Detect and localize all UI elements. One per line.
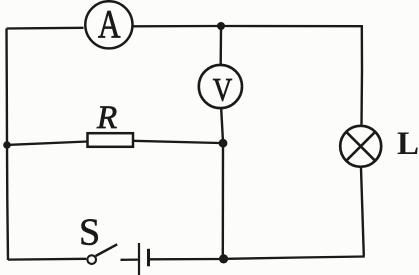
wire top node down to voltmeter	[219, 29, 222, 64]
wire left side (bottom-left corner up to left junction)	[7, 145, 8, 260]
ammeter A1	[85, 1, 132, 48]
wire right side lower (lamp to bottom-right corner)	[361, 168, 364, 256]
lamp L1 circle	[340, 126, 381, 167]
resistor R1 box	[88, 133, 134, 147]
bottom junction dot B	[219, 254, 228, 263]
svg-text:A: A	[98, 1, 121, 46]
wire left junction to resistor	[10, 142, 88, 145]
switch S1 lever	[96, 244, 118, 256]
svg-text:S: S	[79, 211, 100, 253]
svg-text:L: L	[397, 126, 419, 162]
wire right side upper (corner to lamp)	[360, 25, 363, 125]
switch pivot circle	[87, 255, 96, 264]
lamp cross line 2	[346, 132, 375, 161]
wire resistor to middle junction	[133, 141, 219, 143]
wire voltmeter down to middle junction	[221, 109, 223, 140]
wire ammeter to top node	[134, 25, 219, 28]
wire bottom junction to battery	[150, 258, 221, 261]
battery long thin plate	[138, 243, 140, 275]
svg-text:V: V	[213, 72, 233, 108]
svg-text:R: R	[96, 100, 117, 136]
wire top node to top-right corner	[224, 25, 362, 28]
battery short thick plate	[147, 249, 150, 266]
wire bottom right (corner to bottom junction)	[227, 257, 365, 259]
wire battery to switch lever area	[121, 258, 138, 260]
wire switch to bottom-left corner	[8, 258, 86, 261]
node T junction dot	[217, 22, 225, 30]
left junction dot	[3, 141, 11, 149]
wire middle junction down to bottom junction	[222, 146, 225, 256]
lamp cross line 1	[346, 132, 375, 161]
wire top-left horizontal (corner to ammeter)	[7, 27, 84, 30]
voltmeter V1	[199, 65, 242, 108]
wire left side (left junction up to top-left corner)	[5, 29, 8, 146]
middle junction dot M	[219, 139, 228, 148]
